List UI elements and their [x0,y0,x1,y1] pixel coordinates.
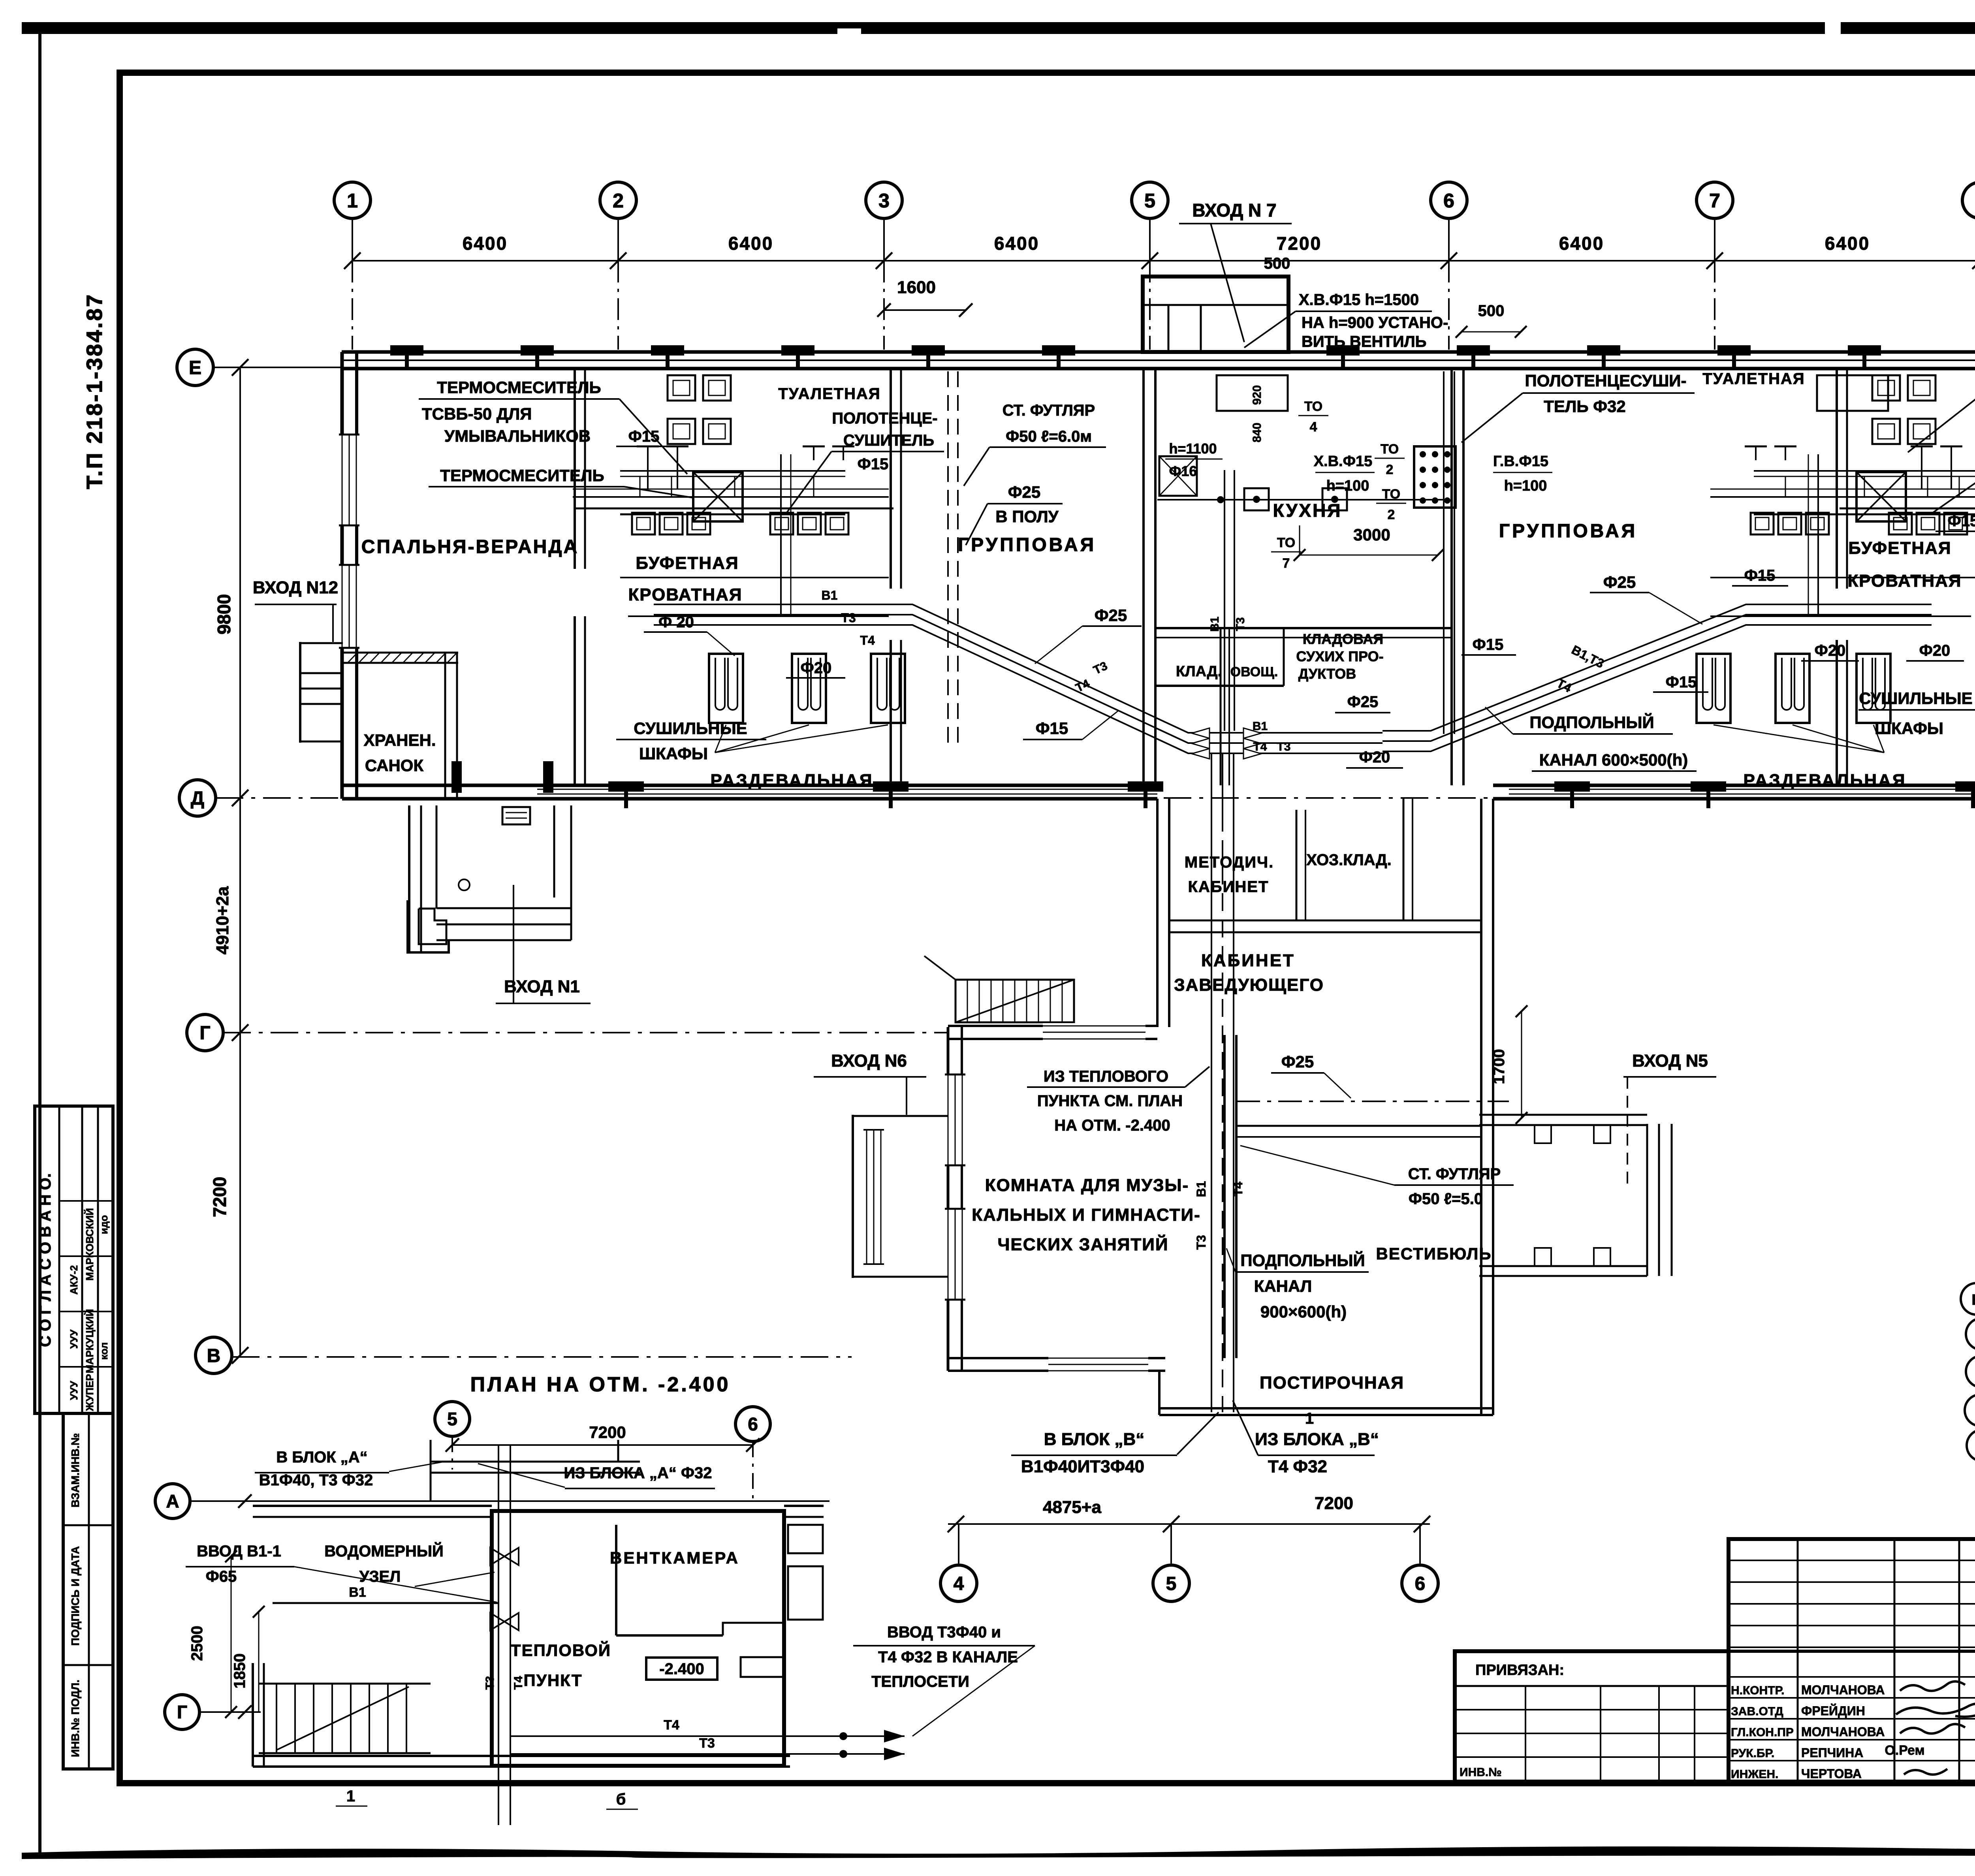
thin sill lines south wall [537,789,1157,790]
scan bottom wavy edge [22,1846,1975,1859]
stamp table inv numbers [63,1413,113,1769]
axis A wall segments [253,1505,492,1507]
stair hatch existing [956,980,1074,1022]
svg-text:Т4: Т4 [664,1718,679,1733]
faucet tees [1940,446,1962,448]
grid circle G plan2 [165,1695,199,1729]
svg-text:Ф15: Ф15 [1744,567,1776,584]
svg-text:В1Ф40, Т3 Ф32: В1Ф40, Т3 Ф32 [259,1471,373,1489]
music room outer walls [947,1027,950,1371]
title block privyazan table [1455,1651,1729,1782]
svg-text:2: 2 [613,190,624,212]
svg-text:ЧЕСКИХ ЗАНЯТИЙ: ЧЕСКИХ ЗАНЯТИЙ [998,1234,1169,1254]
svg-text:УУУ: УУУ [68,1381,80,1400]
svg-text:1700: 1700 [1490,1049,1508,1084]
svg-text:СПАЛЬНЯ-ВЕРАНДА: СПАЛЬНЯ-ВЕРАНДА [361,536,579,557]
main building top wall band [342,350,1975,354]
pipe run right wing to center [1382,604,1932,731]
grid circle Д [179,780,216,816]
svg-text:6400: 6400 [994,233,1039,254]
pipe f25 dashdot [1236,1101,1509,1102]
svg-text:ПОДПОЛЬНЫЙ: ПОДПОЛЬНЫЙ [1240,1251,1365,1270]
svg-text:Ф25: Ф25 [1603,573,1636,591]
entry porch N6 [852,1115,854,1278]
kitchen fixtures row [1157,499,1444,501]
svg-text:Т4 Ф32: Т4 Ф32 [1268,1457,1327,1476]
svg-text:А: А [166,1491,179,1511]
vent grate left [502,807,530,824]
svg-text:840: 840 [1251,423,1264,442]
svg-text:Ф15: Ф15 [1948,512,1975,530]
scan top bar [22,22,1975,34]
svg-text:ПУНКТА СМ. ПЛАН: ПУНКТА СМ. ПЛАН [1037,1092,1183,1110]
svg-text:ВХОД N12: ВХОД N12 [253,578,338,597]
left wing outer west wall [340,352,344,799]
svg-text:ТУАЛЕТНАЯ: ТУАЛЕТНАЯ [1702,370,1805,388]
svg-text:ВЕСТИБЮЛЬ: ВЕСТИБЮЛЬ [1376,1244,1492,1263]
svg-text:6: 6 [1443,190,1454,212]
svg-text:ВВОД В1-1: ВВОД В1-1 [197,1543,281,1560]
svg-text:С О Г Л А С О В А Н О.: С О Г Л А С О В А Н О. [37,1173,54,1347]
upper toilet fixtures right [1872,375,1900,401]
svg-text:Ф15: Ф15 [628,428,660,445]
axis line A plan2 [190,1500,829,1502]
svg-text:О.Рем: О.Рем [1885,1743,1924,1758]
pipe run left wing to center [654,604,1236,733]
upper toilet fixtures left [668,375,695,401]
svg-text:ТО: ТО [1304,399,1322,414]
svg-text:ТЕРМОСМЕСИТЕЛЬ: ТЕРМОСМЕСИТЕЛЬ [440,466,604,485]
svg-text:ТЕПЛОВОЙ: ТЕПЛОВОЙ [511,1641,611,1660]
svg-text:ТЕЛЬ Ф32: ТЕЛЬ Ф32 [1544,397,1626,416]
svg-text:ЧЕРТОВА: ЧЕРТОВА [1801,1767,1862,1781]
pipe V1 plan2 [273,1602,498,1604]
kitchen west wall [1142,369,1145,785]
svg-text:ИЗ БЛОКА „В“: ИЗ БЛОКА „В“ [1255,1430,1379,1449]
heat chamber outline [492,1511,784,1766]
svg-text:В БЛОК „В“: В БЛОК „В“ [1044,1430,1144,1449]
grid circle 5 [1149,218,1151,261]
svg-text:4910+2а: 4910+2а [213,886,232,954]
svg-text:5: 5 [1166,1573,1177,1594]
fixture boxes row [632,513,655,534]
svg-text:Д: Д [191,788,204,809]
svg-text:Ф20: Ф20 [1919,642,1951,659]
svg-text:Ф15: Ф15 [1666,674,1697,691]
svg-text:УЗЕЛ: УЗЕЛ [359,1568,401,1585]
svg-text:РУК.БР.: РУК.БР. [1731,1747,1774,1760]
svg-text:1: 1 [347,190,358,212]
svg-text:МЕТОДИЧ.: МЕТОДИЧ. [1185,854,1274,871]
signature squiggles [1900,1681,1965,1691]
svg-text:ПОДПОЛЬНЫЙ: ПОДПОЛЬНЫЙ [1529,713,1654,732]
kitchen east wall [1450,369,1453,785]
junction arrows [1192,728,1209,738]
entry porch N5 [1646,1124,1648,1276]
heat risers T3 T4 kitchen [1443,371,1445,734]
kitchen stove boxes [1159,456,1197,496]
svg-text:ОВОЩ.: ОВОЩ. [1230,664,1278,679]
svg-text:Т3: Т3 [483,1676,497,1690]
svg-text:Ф50 ℓ=5.0: Ф50 ℓ=5.0 [1409,1190,1483,1208]
svg-text:КРОВАТНАЯ: КРОВАТНАЯ [1847,571,1962,591]
svg-text:КАНАЛ 600×500(h): КАНАЛ 600×500(h) [1539,751,1688,769]
svg-text:Т4: Т4 [860,633,875,647]
svg-text:б: б [616,1791,626,1808]
svg-text:ВИТЬ ВЕНТИЛЬ: ВИТЬ ВЕНТИЛЬ [1302,333,1426,350]
svg-text:ПОСТИРОЧНАЯ: ПОСТИРОЧНАЯ [1260,1373,1404,1392]
grid circle 6 plan2 [735,1407,770,1441]
svg-text:1: 1 [346,1788,355,1805]
svg-text:ФРЕЙДИН: ФРЕЙДИН [1801,1704,1865,1718]
svg-text:СУШИЛЬНЫЕ: СУШИЛЬНЫЕ [634,719,747,738]
svg-text:Ф15: Ф15 [1473,636,1504,653]
svg-text:идо: идо [98,1215,110,1234]
washbasin with X [693,472,743,521]
svg-text:Е: Е [189,358,201,378]
stamp table SOGLASOVANO [35,1106,113,1413]
elevation box -2.400 [646,1658,717,1680]
music room bottom wall [948,1357,1165,1359]
extra washroom piping left [620,470,845,472]
svg-text:Ф25: Ф25 [1347,693,1379,711]
svg-text:4: 4 [1310,420,1317,435]
svg-text:МОЛЧАНОВА: МОЛЧАНОВА [1801,1683,1885,1697]
svg-text:Т3: Т3 [699,1736,715,1751]
svg-text:1600: 1600 [897,278,936,297]
svg-text:НА ОТМ. -2.400: НА ОТМ. -2.400 [1054,1117,1170,1134]
svg-text:Т.П 218-1-384.87: Т.П 218-1-384.87 [82,293,107,489]
svg-text:РАЗДЕВАЛЬНАЯ: РАЗДЕВАЛЬНАЯ [1743,771,1906,790]
svg-text:Ф15: Ф15 [1036,719,1068,738]
postirochnaya walls [1158,1371,1161,1415]
entry porch N1 [408,805,410,952]
svg-text:ТУАЛЕТНАЯ: ТУАЛЕТНАЯ [778,385,880,403]
svg-text:Ф65: Ф65 [206,1568,237,1585]
grid circle 6 [1448,218,1450,261]
svg-text:МОЛЧАНОВА: МОЛЧАНОВА [1801,1725,1885,1739]
pipe T4 plan2 [510,1735,905,1737]
svg-text:Ф20: Ф20 [1359,749,1390,766]
svg-text:ТО: ТО [1277,535,1295,550]
svg-text:ГРУППОВАЯ: ГРУППОВАЯ [958,534,1096,555]
svg-text:В1: В1 [1208,617,1221,632]
hatched pier left door [451,761,462,793]
water pipe line [1710,496,1975,498]
svg-text:Ф15: Ф15 [858,455,889,473]
grid circle 5 bottom [1170,1524,1172,1565]
svg-text:7200: 7200 [209,1177,230,1217]
offices block outer walls [1156,799,1159,1027]
svg-text:ТЕРМОСМЕСИТЕЛЬ: ТЕРМОСМЕСИТЕЛЬ [437,378,601,397]
svg-text:7200: 7200 [1277,233,1322,254]
extra washroom piping right [1754,470,1975,472]
top dimension line [352,260,1975,262]
svg-text:Х.В.Ф15 h=1500: Х.В.Ф15 h=1500 [1299,291,1419,309]
drying cabinets left [709,654,743,723]
svg-text:Т4: Т4 [1253,740,1267,753]
svg-text:h=1100: h=1100 [1169,440,1217,457]
svg-text:3: 3 [878,190,890,212]
svg-text:В1: В1 [822,588,838,602]
central pipe junction [1236,732,1382,734]
water pipe line [573,496,889,498]
svg-text:СТ. ФУТЛЯР: СТ. ФУТЛЯР [1003,402,1095,419]
svg-text:7: 7 [1283,556,1290,571]
svg-text:КАБИНЕТ: КАБИНЕТ [1201,951,1295,970]
kitchen dotted box [1414,446,1456,508]
st futlyar sleeve pipe left [947,371,949,751]
svg-text:h=100: h=100 [1504,478,1547,494]
svg-text:КАНАЛ: КАНАЛ [1254,1277,1312,1295]
svg-text:6400: 6400 [1559,233,1604,254]
grid circle 6 bottom [1419,1524,1421,1565]
svg-text:6400: 6400 [463,233,508,254]
dim line 7200 plan2 [452,1444,753,1446]
dim 1850 plan2 [258,1612,260,1712]
svg-text:МАРКОВСКИЙ: МАРКОВСКИЙ [84,1208,96,1281]
stairs plan2 [259,1683,431,1685]
svg-text:ВХОД N1: ВХОД N1 [504,977,580,996]
svg-text:900×600(h): 900×600(h) [1260,1302,1347,1321]
grid circle Г [187,1014,223,1051]
grid circle 3 [883,218,885,261]
window piers on top wall [390,345,423,356]
svg-text:-2.400: -2.400 [659,1660,704,1678]
svg-text:Т4 Ф32 В КАНАЛЕ: Т4 Ф32 В КАНАЛЕ [878,1648,1018,1666]
svg-text:БУФЕТНАЯ: БУФЕТНАЯ [1848,538,1951,558]
svg-text:ВЕНТКАМЕРА: ВЕНТКАМЕРА [610,1549,739,1567]
svg-text:ШКАФЫ: ШКАФЫ [639,744,708,763]
axis line V [232,1356,852,1358]
grid circle Е [177,349,213,386]
svg-text:Ф25: Ф25 [1095,606,1127,625]
svg-text:1: 1 [1305,1410,1314,1427]
svg-text:2: 2 [1386,462,1394,477]
walls plan2 top [430,1440,432,1501]
pantry walls [1155,627,1452,629]
svg-text:БУФЕТНАЯ: БУФЕТНАЯ [636,553,739,573]
svg-text:ПУНКТ: ПУНКТ [524,1671,583,1690]
right edge channel boxes [788,1525,823,1553]
svg-text:ИНВ.№ ПОДЛ.: ИНВ.№ ПОДЛ. [69,1680,81,1757]
svg-text:АКУ-2: АКУ-2 [68,1265,80,1295]
valve symbols [490,1548,504,1565]
sled storage room left [444,652,446,799]
axis line G [223,1032,948,1033]
svg-text:ШКАФЫ: ШКАФЫ [1875,719,1943,738]
svg-text:7200: 7200 [589,1423,626,1441]
entry porch N7 [1143,277,1288,352]
svg-text:920: 920 [1251,385,1264,405]
svg-text:Х.В.Ф15: Х.В.Ф15 [1314,453,1373,470]
svg-text:Ф25: Ф25 [1281,1052,1314,1071]
svg-text:6400: 6400 [728,233,773,254]
bottom dimension line center [948,1523,1430,1525]
svg-text:ТО: ТО [1381,442,1399,457]
svg-text:ХРАНЕН.: ХРАНЕН. [363,731,436,749]
drying cabinets right [1697,654,1730,723]
svg-text:ТСВБ-50 ДЛЯ: ТСВБ-50 ДЛЯ [422,405,532,423]
grid circle 2 [617,218,619,261]
title block signature table [1729,1539,1975,1782]
svg-text:УУУ: УУУ [68,1329,80,1349]
svg-text:7200: 7200 [1315,1494,1353,1513]
svg-text:В: В [207,1345,221,1366]
pipe T3 plan2 [510,1753,905,1755]
svg-text:КОМНАТА ДЛЯ МУЗЫ-: КОМНАТА ДЛЯ МУЗЫ- [985,1176,1189,1195]
svg-text:В БЛОК „А“: В БЛОК „А“ [276,1449,367,1466]
svg-text:ПОДПИСЬ И ДАТА: ПОДПИСЬ И ДАТА [69,1546,81,1646]
grid circle A plan2 [155,1484,190,1518]
svg-text:Г: Г [177,1702,187,1722]
grid circle 5 plan2 [435,1402,470,1436]
washbasin with X [1856,472,1906,521]
svg-text:В1Ф40ИТ3Ф40: В1Ф40ИТ3Ф40 [1021,1457,1144,1476]
svg-text:В1: В1 [349,1585,366,1600]
grid circle В [196,1337,232,1374]
svg-text:5: 5 [1144,190,1155,212]
svg-text:СУШИЛЬНЫЕ: СУШИЛЬНЫЕ [1859,689,1972,707]
south wall piers [608,781,644,792]
svg-text:ВХОД N 7: ВХОД N 7 [1192,200,1276,220]
svg-text:4875+а: 4875+а [1043,1498,1102,1517]
key plan axis circles [1961,1283,1975,1315]
svg-text:Т4: Т4 [1231,1182,1245,1197]
svg-text:Т3: Т3 [1194,1235,1208,1249]
office partitions [1296,810,1298,920]
svg-text:Г.В.Ф15: Г.В.Ф15 [1493,453,1548,470]
svg-text:КРОВАТНАЯ: КРОВАТНАЯ [628,585,742,604]
svg-text:МАРКУЦКИЙ: МАРКУЦКИЙ [84,1309,96,1374]
svg-text:Ф20: Ф20 [1815,642,1846,659]
svg-text:УМЫВАЛЬНИКОВ: УМЫВАЛЬНИКОВ [444,427,591,445]
svg-text:СУХИХ ПРО-: СУХИХ ПРО- [1296,648,1383,664]
svg-text:Г: Г [199,1023,210,1044]
grid circle 7 [1714,218,1715,261]
svg-text:ДУКТОВ: ДУКТОВ [1298,666,1356,682]
grid circle 4 bottom [958,1524,959,1565]
kitchen riser pipes [1224,470,1225,731]
music room top window [1043,1023,1145,1042]
svg-text:ВЗАМ.ИНВ.№: ВЗАМ.ИНВ.№ [69,1433,81,1507]
partition walls left wing [574,369,576,569]
axis line D [216,797,1975,799]
riser pipes plan2 [498,1446,499,1825]
walls plan2 bottom [252,1663,254,1767]
left dimension line [239,367,241,1355]
offices floor divider [1169,920,1481,922]
dim 2500 plan2 [231,1556,232,1712]
svg-text:Т3: Т3 [1234,617,1247,631]
svg-text:4: 4 [954,1573,964,1594]
vertical risers [1817,454,1819,616]
svg-text:КАЛЬНЫХ И ГИМНАСТИ-: КАЛЬНЫХ И ГИМНАСТИ- [972,1205,1200,1225]
svg-text:Т3: Т3 [841,611,856,625]
svg-text:Ф25: Ф25 [1008,483,1041,501]
svg-text:Е: Е [1971,1292,1975,1308]
svg-text:НА h=900 УСТАНО-: НА h=900 УСТАНО- [1302,314,1448,331]
svg-text:2: 2 [1388,507,1395,522]
svg-text:ВХОД N5: ВХОД N5 [1632,1051,1708,1071]
central risers in lower block [1211,814,1212,1412]
svg-text:ГЛ.КОН.ПР: ГЛ.КОН.ПР [1731,1726,1794,1739]
svg-text:6400: 6400 [1825,233,1870,254]
south wall of wings on axis D [342,784,1157,787]
svg-text:ИНВ.№: ИНВ.№ [1460,1766,1502,1779]
svg-text:ИЗ ТЕПЛОВОГО: ИЗ ТЕПЛОВОГО [1044,1068,1168,1085]
svg-text:7: 7 [1709,190,1720,212]
svg-text:В1: В1 [1253,720,1268,733]
svg-text:РАЗДЕВАЛЬНАЯ: РАЗДЕВАЛЬНАЯ [710,771,873,790]
svg-text:ВОДОМЕРНЫЙ: ВОДОМЕРНЫЙ [324,1542,444,1560]
svg-text:5: 5 [447,1409,457,1429]
svg-text:ВВОД Т3Ф40 и: ВВОД Т3Ф40 и [887,1624,1001,1641]
leader lines dryers left [715,725,726,753]
svg-text:ПОЛОТЕНЦЕ-: ПОЛОТЕНЦЕ- [832,410,937,427]
svg-text:Ф 20: Ф 20 [658,613,694,631]
svg-text:В1: В1 [1194,1181,1208,1197]
music room west windows [945,1074,965,1165]
pipe drop to lower block [1211,753,1212,814]
svg-text:СУШИТЕЛЬ: СУШИТЕЛЬ [843,432,934,449]
svg-text:500: 500 [1264,255,1290,272]
svg-text:ЖУПЕР: ЖУПЕР [84,1374,96,1411]
svg-text:ПРИВЯЗАН:: ПРИВЯЗАН: [1475,1662,1564,1678]
vestibule walls [1223,1035,1226,1358]
svg-text:САНОК: САНОК [365,756,424,775]
svg-text:ПОЛОТЕНЦЕСУШИ-: ПОЛОТЕНЦЕСУШИ- [1525,371,1687,390]
svg-text:ГРУППОВАЯ: ГРУППОВАЯ [1499,521,1637,542]
west wall window bands [339,435,359,525]
faucet tees [637,446,659,448]
svg-text:ИНЖЕН.: ИНЖЕН. [1731,1768,1778,1781]
svg-text:ТЕПЛОСЕТИ: ТЕПЛОСЕТИ [871,1673,969,1690]
svg-text:ЗАВЕДУЮЩЕГО: ЗАВЕДУЮЩЕГО [1174,975,1324,995]
svg-text:ХОЗ.КЛАД.: ХОЗ.КЛАД. [1306,851,1391,869]
svg-text:СТ. ФУТЛЯР: СТ. ФУТЛЯР [1408,1165,1501,1183]
svg-text:6: 6 [748,1414,758,1434]
svg-text:РЕПЧИНА: РЕПЧИНА [1801,1746,1863,1760]
svg-text:кол: кол [98,1342,110,1360]
grid circle 1 [352,218,353,261]
svg-text:Т4: Т4 [512,1676,525,1690]
svg-text:ВХОД N6: ВХОД N6 [831,1051,907,1071]
scan left paper edge [38,24,41,1857]
svg-text:КАБИНЕТ: КАБИНЕТ [1188,878,1269,896]
svg-text:500: 500 [1478,302,1505,320]
svg-text:1850: 1850 [231,1654,248,1689]
svg-text:Т3: Т3 [1277,740,1290,753]
vertical risers [780,454,782,616]
svg-text:Ф50 ℓ=6.0м: Ф50 ℓ=6.0м [1006,428,1092,445]
axis line E [213,367,342,368]
svg-text:Н.КОНТР.: Н.КОНТР. [1731,1684,1784,1697]
svg-text:9800: 9800 [214,594,234,634]
svg-text:В ПОЛУ: В ПОЛУ [995,507,1059,526]
svg-text:2500: 2500 [188,1626,206,1661]
svg-text:КЛАД.: КЛАД. [1176,663,1222,680]
svg-text:3000: 3000 [1353,525,1390,544]
fixture boxes row [1944,513,1967,534]
svg-text:ПЛАН НА ОТМ. -2.400: ПЛАН НА ОТМ. -2.400 [470,1373,731,1396]
svg-text:КЛАДОВАЯ: КЛАДОВАЯ [1303,631,1383,647]
svg-text:ЗАВ.ОТД: ЗАВ.ОТД [1731,1705,1783,1718]
entry porch N12 [299,642,301,743]
leader lines dryers right [1714,725,1884,753]
ventkamera partition [615,1525,617,1635]
svg-text:6: 6 [1415,1573,1426,1594]
